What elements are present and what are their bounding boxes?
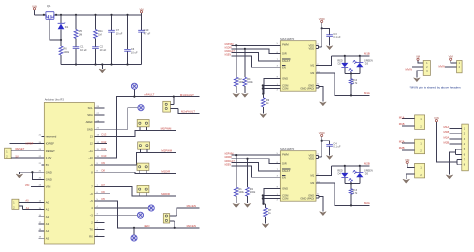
svg-text:*MVIN pin is shared by above h: *MVIN pin is shared by above headers	[410, 85, 462, 89]
svg-text:10 uF: 10 uF	[116, 31, 123, 35]
resistor R5	[74, 15, 82, 47]
svg-text:~11: ~11	[88, 149, 93, 153]
op-amp/driver U2 MAX14870	[277, 147, 321, 201]
svg-text:MVIN: MVIN	[406, 68, 413, 72]
svg-text:R5: R5	[79, 29, 83, 33]
svg-text:A3: A3	[46, 222, 50, 226]
svg-text:D11: D11	[102, 147, 107, 151]
wire LED join	[345, 72, 360, 74]
svg-text:IOREF: IOREF	[25, 142, 33, 146]
jumper M1DIR	[137, 163, 176, 173]
junction Q1 pins	[43, 14, 45, 16]
svg-text:M2EN: M2EN	[225, 164, 232, 166]
supply VIN conn8	[434, 116, 459, 165]
svg-text:3.3V: 3.3V	[46, 156, 52, 160]
svg-text:VIN: VIN	[25, 183, 30, 187]
svg-text:0.1 uF: 0.1 uF	[333, 146, 341, 149]
wire M2FAULT	[232, 162, 281, 171]
resistor R7 sense	[262, 204, 272, 228]
svg-text:M1nFAULT: M1nFAULT	[180, 93, 194, 97]
resistor R6 100k	[59, 40, 70, 65]
wire GND to testpoint TP2	[94, 108, 137, 130]
wire U1 COM pins	[263, 86, 281, 94]
LED D2 red	[337, 56, 348, 74]
svg-text:100k: 100k	[63, 50, 69, 54]
svg-text:M1A: M1A	[444, 125, 450, 129]
connector J_M2 out	[402, 139, 425, 154]
LED D3 rays	[349, 69, 353, 72]
svg-text:D6: D6	[102, 190, 106, 194]
svg-text:A4: A4	[46, 229, 50, 233]
wire D3 to testpoint TP4	[94, 214, 137, 216]
svg-text:M1DIR: M1DIR	[225, 47, 232, 49]
ground power rail	[99, 65, 106, 74]
svg-text:VIN: VIN	[32, 4, 37, 8]
resistor R10 4.7k	[349, 73, 358, 95]
svg-text:reserved: reserved	[46, 135, 57, 139]
resistor R1 pullup	[233, 154, 245, 207]
wire M2EN	[232, 166, 281, 177]
wire M1EN	[232, 56, 281, 67]
svg-text:COM: COM	[282, 197, 289, 201]
wire M2 output	[316, 73, 370, 95]
wire D5 to nEN	[94, 201, 199, 228]
capacitor C2 10uF	[92, 45, 106, 65]
LED D5 green	[356, 166, 373, 184]
wire U2 GND right	[316, 195, 323, 211]
svg-text:M1A: M1A	[399, 115, 405, 119]
supply VM header B	[449, 55, 454, 63]
testpoint TP4	[137, 212, 143, 218]
wire conn8 signal pins	[449, 129, 458, 145]
svg-text:M2A: M2A	[399, 140, 405, 144]
LED D5 rays	[349, 179, 353, 182]
ground arduino left	[16, 174, 23, 178]
svg-text:A5: A5	[46, 236, 50, 240]
supply VIN	[32, 4, 37, 14]
svg-text:C6: C6	[131, 47, 135, 51]
testpoint TP3	[148, 205, 154, 211]
supply VM conn C	[405, 158, 415, 168]
svg-text:EN: EN	[282, 65, 286, 69]
svg-text:M1A: M1A	[364, 91, 370, 95]
wire D10 to nFAULT	[94, 97, 199, 158]
svg-text:~3: ~3	[90, 213, 94, 217]
Arduino right pin names	[86, 106, 94, 239]
supply VM header A	[416, 55, 421, 63]
svg-text:1M: 1M	[98, 32, 102, 36]
svg-text:4.7k: 4.7k	[353, 82, 358, 85]
svg-text:47 uF: 47 uF	[144, 31, 151, 35]
wire nEN jumper to nets	[175, 208, 200, 228]
supply VDD U1	[316, 17, 325, 48]
op-amp/driver U1 MAX14870	[277, 37, 321, 91]
svg-text:M1PWM: M1PWM	[161, 127, 172, 131]
Arduino left pin stubs	[38, 136, 44, 238]
svg-text:M1: M1	[310, 64, 314, 68]
wire U2 GND left	[264, 188, 281, 204]
svg-text:D1: D1	[65, 25, 69, 29]
svg-text:nEN: nEN	[144, 224, 149, 228]
svg-text:M2DIR: M2DIR	[161, 192, 170, 196]
ground U1 right	[320, 102, 327, 106]
wire U1 GND right	[316, 85, 323, 101]
svg-text:M1: M1	[310, 174, 314, 178]
LED D3 green	[356, 56, 373, 74]
LED D2 rays	[353, 60, 357, 63]
jumper M2PWM	[138, 142, 176, 153]
Arduino right pin stubs	[94, 108, 110, 237]
svg-text:DIR: DIR	[282, 52, 287, 56]
svg-text:M2: M2	[310, 181, 314, 185]
svg-text:M1nEN: M1nEN	[187, 204, 196, 208]
svg-text:0.1 uF: 0.1 uF	[333, 36, 341, 39]
capacitor C7 10uF	[108, 15, 123, 65]
svg-text:RX: RX	[89, 235, 93, 239]
svg-text:C10: C10	[144, 28, 149, 32]
svg-text:C1: C1	[80, 45, 84, 49]
supply VM	[139, 7, 144, 12]
svg-text:M2PWM: M2PWM	[161, 149, 172, 153]
wire MVIN header B	[445, 66, 454, 68]
resistor R2 pullup	[233, 44, 245, 97]
svg-text:IOREF: IOREF	[46, 142, 55, 146]
svg-text:FAULT: FAULT	[282, 169, 291, 173]
svg-text:100k: 100k	[239, 191, 245, 194]
svg-text:10 uF: 10 uF	[131, 51, 138, 55]
svg-text:10 uF: 10 uF	[80, 48, 87, 52]
svg-text:M1B: M1B	[399, 122, 405, 126]
svg-text:M2B: M2B	[399, 146, 405, 150]
svg-text:5V: 5V	[16, 154, 19, 158]
svg-text:R11: R11	[98, 29, 103, 33]
capacitor C6 10uF	[124, 15, 138, 65]
net label M1A conn8	[444, 125, 450, 145]
transistor Q1	[46, 4, 54, 20]
svg-text:A1: A1	[26, 206, 30, 210]
wire U1 GND left	[264, 78, 281, 94]
resistor R11	[94, 15, 104, 47]
wire D7 to jumper M2DIR	[94, 187, 139, 196]
wire D9 to jumper M2PWM	[94, 153, 141, 166]
svg-text:M1EN: M1EN	[225, 55, 232, 57]
svg-text:A0: A0	[46, 201, 50, 205]
jumper M1PWM	[137, 120, 176, 131]
capacitor C10 47uF	[138, 15, 150, 65]
wire M2PWM	[232, 154, 281, 156]
svg-text:TX: TX	[89, 228, 93, 232]
resistor R9 sense	[260, 94, 270, 118]
svg-text:GND (PAD): GND (PAD)	[300, 86, 314, 90]
svg-text:C2: C2	[100, 45, 104, 49]
wire M1DIR	[232, 49, 281, 54]
wire M1FAULT	[232, 53, 281, 61]
jumper nEN select	[163, 214, 176, 223]
svg-text:VIN: VIN	[46, 185, 51, 189]
svg-text:M2B: M2B	[364, 161, 370, 165]
svg-text:GND (PAD): GND (PAD)	[300, 196, 314, 200]
svg-text:100k: 100k	[250, 191, 256, 194]
svg-text:DIR: DIR	[282, 162, 287, 166]
connector J_VM_C 2-pin	[415, 163, 425, 178]
resistor R4 pullup	[242, 48, 254, 98]
svg-text:~5: ~5	[90, 199, 94, 203]
Arduino right pin numbers	[97, 106, 100, 237]
svg-text:GND: GND	[87, 127, 93, 131]
Arduino left pin numbers	[39, 135, 42, 239]
svg-text:M2nFAULT: M2nFAULT	[181, 110, 195, 114]
svg-text:A2: A2	[46, 215, 50, 219]
svg-text:VM: VM	[405, 158, 410, 162]
svg-text:M2A: M2A	[444, 135, 450, 139]
wire LED join U2	[345, 182, 360, 184]
svg-text:MVIN: MVIN	[439, 64, 446, 68]
wire VIN rail top	[35, 13, 142, 15]
svg-text:VDD: VDD	[319, 131, 325, 135]
svg-text:A1: A1	[46, 208, 50, 212]
svg-text:M1DIR: M1DIR	[161, 170, 170, 174]
resistor R13 4.7k	[349, 183, 358, 205]
svg-text:nFAULT: nFAULT	[144, 93, 154, 97]
supply VDD U2	[316, 131, 325, 158]
svg-text:C7: C7	[116, 28, 120, 32]
svg-text:AREF: AREF	[86, 120, 94, 124]
svg-text:VIN: VIN	[434, 116, 439, 120]
svg-text:GND: GND	[282, 76, 288, 80]
net label M2PWM input	[225, 154, 236, 167]
svg-text:~9: ~9	[90, 163, 94, 167]
wire conn8 gnd pins	[450, 149, 459, 175]
svg-text:Arduino Uno R3: Arduino Uno R3	[45, 97, 65, 101]
svg-text:D12: D12	[102, 140, 107, 144]
diode D1 (zener)	[58, 15, 69, 40]
svg-text:PWM: PWM	[282, 43, 289, 47]
svg-text:SDA: SDA	[87, 113, 93, 117]
wire M2DIR	[232, 159, 281, 164]
svg-text:VDD: VDD	[309, 157, 315, 161]
ground header A	[414, 71, 421, 82]
svg-text:GND: GND	[282, 186, 288, 190]
jumper M2DIR	[137, 185, 176, 195]
svg-text:FAULT: FAULT	[282, 59, 291, 63]
svg-text:M1B: M1B	[364, 51, 370, 55]
svg-text:4.7k: 4.7k	[353, 192, 358, 195]
svg-text:M2: M2	[310, 71, 314, 75]
svg-text:VDD: VDD	[309, 47, 315, 51]
net labels D13..D5	[102, 133, 107, 202]
junction gate node	[60, 14, 62, 16]
wire MVIN header A	[412, 66, 420, 68]
svg-text:~10: ~10	[88, 156, 93, 160]
svg-text:12: 12	[90, 142, 93, 146]
wire M1PWM	[232, 44, 281, 46]
svg-text:SCL: SCL	[88, 106, 94, 110]
Arduino Uno R3 module U?	[44, 97, 94, 244]
wire nFAULT jumper to nets	[174, 97, 200, 114]
Arduino left pin names	[46, 135, 57, 241]
wire D4 to testpoint TP3	[94, 207, 148, 209]
connector J_A0/A1	[12, 199, 44, 209]
svg-text:13: 13	[90, 135, 93, 139]
ground conn C	[403, 174, 415, 183]
resistor R2 pullup (driver 2)	[244, 158, 256, 208]
connector J_VM_B 2-pin	[454, 61, 462, 73]
svg-text:COM: COM	[282, 87, 289, 91]
LED D4 rays	[353, 170, 357, 173]
svg-text:1M: 1M	[79, 32, 83, 36]
svg-text:100k: 100k	[247, 81, 253, 84]
wire Q1 gate	[50, 20, 61, 40]
ground conn8	[446, 175, 453, 179]
svg-text:M2A: M2A	[364, 201, 370, 205]
svg-text:~6: ~6	[90, 192, 94, 196]
svg-text:GND: GND	[46, 170, 52, 174]
svg-text:M2DIR: M2DIR	[225, 157, 232, 159]
connector J_VM_A 3-pin	[420, 61, 431, 76]
LED D4 red	[337, 166, 348, 184]
connector J_M1 out	[402, 115, 425, 129]
svg-text:10 uF: 10 uF	[100, 48, 107, 52]
svg-text:PWM: PWM	[282, 153, 289, 157]
svg-text:M2B: M2B	[444, 141, 450, 145]
svg-text:M2nEN: M2nEN	[187, 224, 196, 228]
wire M1 output U2	[316, 166, 370, 176]
capacitor C4 0.1uF	[322, 141, 341, 160]
svg-text:M1B: M1B	[444, 130, 450, 134]
testpoint TP1	[131, 83, 137, 97]
net label M1PWM input	[225, 44, 236, 57]
svg-text:GND: GND	[46, 177, 52, 181]
svg-text:R6: R6	[63, 46, 67, 50]
wire GND pins left	[19, 172, 44, 179]
capacitor C1 10uF	[73, 45, 87, 65]
connector J_IOREF/RESET	[5, 144, 45, 159]
wire VIN pin	[31, 186, 44, 188]
jumper nFAULT select	[163, 101, 178, 112]
testpoint TP2	[138, 105, 144, 111]
wire M1 output	[316, 56, 370, 66]
wire D8 to jumper M1DIR	[94, 172, 139, 173]
ground U2 right	[320, 212, 327, 216]
svg-text:A0: A0	[25, 199, 29, 203]
connector J_ALL 8-pin	[459, 124, 469, 171]
wire M2 output U2	[316, 183, 370, 205]
wire GND rail bottom	[61, 64, 142, 66]
svg-text:RESET: RESET	[16, 147, 25, 151]
wire D13 to jumper M1PWM	[94, 130, 139, 136]
svg-text:Q1: Q1	[47, 4, 51, 8]
svg-text:VDD: VDD	[319, 17, 325, 21]
svg-text:EN: EN	[282, 175, 286, 179]
svg-text:5V: 5V	[46, 163, 49, 167]
capacitor C3 0.1uF	[322, 28, 341, 49]
wire U2 COM pins	[263, 196, 281, 204]
testpoint TP5	[131, 228, 137, 241]
svg-text:RESET: RESET	[46, 149, 55, 153]
